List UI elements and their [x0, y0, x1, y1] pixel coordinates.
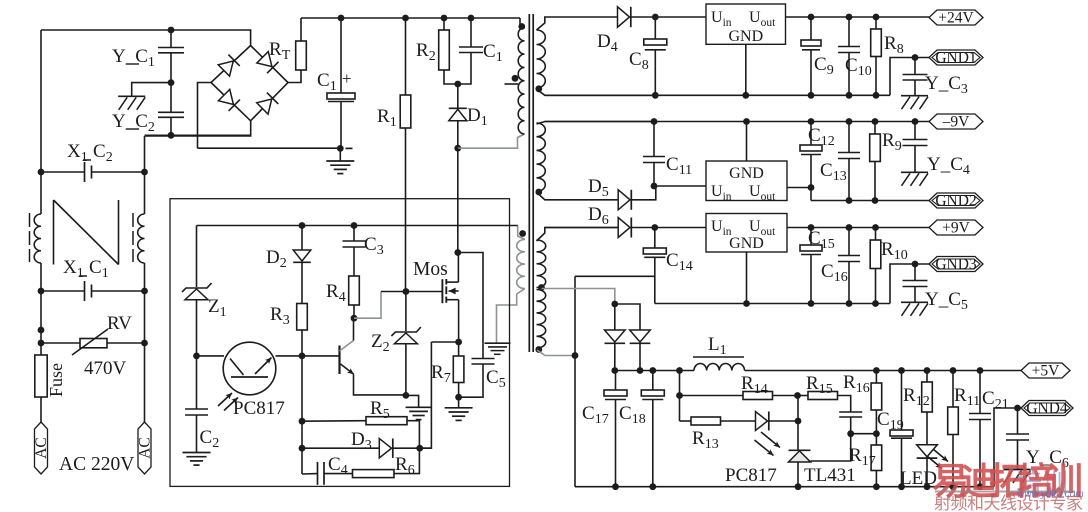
wire source to feedback	[420, 342, 432, 448]
svg-text:GND4: GND4	[1026, 400, 1068, 417]
common-mode choke right winding	[138, 214, 145, 263]
node GND1-YC3	[912, 54, 919, 61]
node snubber-D1	[454, 81, 461, 88]
node drain	[454, 249, 461, 256]
wire primary ground rail y=148	[198, 147, 341, 149]
capacitor C18	[652, 371, 654, 391]
node source	[455, 339, 462, 346]
capacitor C2	[196, 356, 198, 409]
wire control supply rail y=225	[197, 225, 518, 227]
node D3-R5-R6	[416, 445, 423, 452]
capacitor C1 snubber	[468, 15, 475, 22]
chassis ground Y_C6	[1004, 469, 1031, 471]
zener Z2	[405, 292, 407, 332]
capacitor C1 bulk	[338, 15, 345, 22]
ground (primary)	[326, 160, 354, 162]
svg-text:TL431: TL431	[804, 465, 856, 486]
capacitor C10	[846, 14, 853, 21]
svg-text:AC 220V: AC 220V	[59, 454, 134, 475]
transistor Q1	[338, 346, 340, 375]
node D3 row left	[299, 445, 306, 452]
wire gate drive	[354, 292, 381, 319]
node center tap	[538, 284, 545, 291]
node emitter	[403, 392, 410, 399]
capacitor C9	[808, 14, 815, 21]
choke symbol N	[53, 200, 55, 265]
node diode pair top	[611, 301, 618, 308]
resistor R10	[872, 224, 879, 231]
ground C2	[183, 452, 211, 454]
wire top DC rail y=18	[301, 17, 520, 19]
chassis ground Y_C4	[901, 171, 928, 173]
wire +5V bottom rail	[575, 486, 994, 488]
svg-text:+9V: +9V	[942, 220, 970, 237]
earth bar C5	[485, 342, 511, 344]
resistor R16	[873, 367, 880, 374]
node Y-cap midpoint	[168, 79, 175, 86]
capacitor C20	[839, 411, 862, 413]
svg-text:GND3: GND3	[935, 256, 977, 273]
chassis ground Y_C5	[901, 301, 928, 303]
capacitor C19	[898, 367, 905, 374]
wire primary return y=148	[458, 134, 525, 148]
transformer core	[528, 14, 530, 352]
node feedback column	[676, 367, 683, 374]
node opto-TL431	[795, 418, 802, 425]
node gate	[403, 288, 410, 295]
capacitor Y_C4	[914, 122, 916, 140]
wire AC top rail y=30	[41, 30, 251, 46]
terminal GND2	[929, 193, 983, 208]
capacitor C3	[351, 222, 358, 229]
resistor R3	[297, 304, 308, 331]
capacitor Y_C6	[1017, 408, 1019, 434]
bridge diode bottom-left	[218, 89, 240, 111]
diode D4	[618, 7, 630, 27]
terminal GND3	[929, 257, 983, 272]
wire shield to earth	[497, 289, 525, 343]
svg-text:470V: 470V	[84, 358, 127, 379]
capacitor C16	[846, 224, 853, 231]
opto PC817 input circle	[223, 342, 276, 395]
capacitor C14	[651, 224, 658, 231]
watermark	[932, 461, 1084, 512]
TL431 U4	[789, 451, 811, 462]
wire source left	[431, 341, 458, 343]
wire U2 output	[787, 187, 811, 189]
terminal GND1	[929, 50, 983, 65]
node R5 left	[299, 418, 306, 425]
node GND4-YC6	[1014, 405, 1021, 412]
wire bridge minus to ground rail	[198, 83, 212, 149]
wire C14 to common	[575, 275, 655, 277]
resistor R17	[875, 434, 877, 445]
transformer primary winding	[520, 18, 525, 28]
node R7-C5	[455, 394, 462, 401]
transformer secondary winding D (+5V)	[537, 290, 546, 349]
wire +5V raw rail	[615, 370, 694, 372]
resistor R4	[349, 276, 360, 305]
node R14-R15	[794, 392, 801, 399]
svg-text:PC817: PC817	[233, 398, 285, 419]
node C11-Uin	[651, 183, 658, 190]
wire left AC rail	[40, 30, 42, 214]
capacitor C17	[615, 371, 617, 391]
wire y=136 from right rail to bridge	[145, 134, 251, 136]
common-mode choke left winding	[34, 214, 41, 263]
capacitor Y_C1	[168, 27, 175, 34]
bridge diode top-left	[218, 55, 240, 77]
zener Z1	[196, 226, 198, 288]
svg-text:GND: GND	[729, 165, 764, 182]
svg-text:GND1: GND1	[935, 50, 976, 67]
wire GND3 link	[890, 264, 929, 304]
diode D7	[614, 304, 616, 330]
resistor R8	[873, 14, 880, 21]
terminal +9V	[929, 220, 983, 235]
resistor R2	[441, 15, 448, 22]
ground Z2	[406, 406, 432, 408]
wire to R16/R17 node	[851, 433, 877, 435]
diode D1	[457, 84, 459, 108]
resistor R12	[924, 367, 931, 374]
diode D8	[615, 304, 640, 330]
resistor R15	[798, 395, 809, 397]
resistor R13	[691, 417, 721, 425]
regulator U3 box	[706, 214, 787, 253]
terminal +5V	[1021, 363, 1070, 378]
inductor L1	[694, 364, 745, 371]
node drain-primary	[454, 145, 461, 152]
resistor R11	[950, 367, 957, 374]
wire center tap to diode pair	[542, 289, 615, 305]
svg-text:+24V: +24V	[938, 10, 974, 27]
regulator U2 box	[706, 161, 787, 201]
wire secondary A return y=95	[545, 94, 890, 96]
capacitor C4	[302, 473, 318, 475]
resistor R5	[302, 420, 366, 423]
svg-text:PC817: PC817	[725, 465, 777, 486]
capacitor Y_C5	[914, 264, 916, 280]
svg-text:射频和天线设计专家: 射频和天线设计专家	[934, 494, 1083, 512]
capacitor C13	[846, 118, 853, 125]
wire drain to C5	[458, 253, 483, 344]
capacitor X1_C1	[38, 288, 45, 295]
svg-text:RV: RV	[107, 313, 132, 334]
node R4-collector	[351, 315, 358, 322]
svg-text:AC: AC	[137, 437, 154, 459]
chassis ground Y_C3	[901, 95, 928, 97]
regulator U1 box	[706, 4, 786, 44]
capacitor C15	[808, 224, 815, 231]
regulator U2 GND pin	[746, 122, 748, 162]
svg-text:+5V: +5V	[1032, 363, 1060, 380]
diode D2	[299, 222, 306, 229]
wire +9V output	[787, 227, 929, 229]
svg-text:GND2: GND2	[935, 193, 976, 210]
wire GND2 rail y=200	[811, 200, 929, 202]
resistor R6	[353, 470, 395, 478]
resistor RT	[296, 41, 307, 70]
wire common drop x=575	[574, 276, 576, 486]
resistor R14	[680, 395, 744, 397]
capacitor C5	[459, 365, 483, 398]
node -9V YC4	[912, 118, 919, 125]
diode D3	[302, 447, 379, 449]
varistor RV 470V	[38, 327, 45, 334]
node TL431 anode	[795, 483, 802, 490]
opto light arrows	[218, 393, 232, 406]
wire +24V output	[786, 16, 930, 18]
bridge diode bottom-right	[257, 93, 279, 115]
transformer secondary winding B (-9V)	[537, 123, 546, 192]
node Y_C2 bottom	[168, 132, 175, 139]
svg-text:+: +	[342, 69, 352, 88]
wire GND4 link	[994, 408, 1021, 487]
wire bridge plus to RT	[288, 70, 301, 83]
wire +9V section return y=303	[655, 303, 890, 305]
wire right AC rail	[144, 136, 146, 214]
capacitor C21	[977, 367, 984, 374]
wire emitter to ground	[406, 395, 419, 406]
resistor R1	[402, 15, 409, 22]
wire base column down	[301, 356, 303, 421]
opto LED PC817 input	[756, 412, 768, 431]
terminal +24V	[929, 10, 983, 25]
node C1 ground	[337, 145, 344, 152]
diode D6	[545, 227, 618, 229]
capacitor C12	[808, 118, 815, 125]
control section box	[170, 199, 510, 487]
node D4-C8	[652, 14, 659, 21]
bridge rectifier diamond	[211, 46, 288, 121]
terminal AC right	[138, 422, 151, 474]
opto phototransistor	[230, 359, 244, 376]
wire -9V rail y=121	[545, 121, 929, 123]
svg-text:Mos: Mos	[413, 259, 448, 280]
capacitor X1_C2	[38, 169, 45, 176]
wire GND1 link	[890, 58, 929, 96]
node base	[299, 353, 306, 360]
terminal GND4	[1021, 401, 1073, 416]
diode D5	[618, 190, 630, 210]
fuse Fuse	[35, 355, 47, 397]
transformer shield winding	[518, 226, 525, 240]
wire TL431 ref	[811, 434, 851, 461]
node GND3-YC5	[912, 261, 919, 268]
transformer secondary winding C (+9V)	[537, 240, 546, 288]
regulator U1 GND pin	[745, 44, 747, 95]
resistor R9	[872, 118, 879, 125]
svg-text:GND: GND	[728, 28, 763, 45]
wire AC line y=136	[145, 121, 251, 136]
bridge diode top-right	[257, 52, 279, 74]
capacitor C11	[651, 118, 658, 125]
regulator U3 GND pin	[746, 252, 748, 304]
svg-text:AC: AC	[33, 437, 50, 459]
terminal AC left	[35, 422, 48, 474]
svg-text:Fuse: Fuse	[46, 363, 66, 397]
LED indicator	[917, 445, 938, 457]
opto coupling arrows	[761, 432, 780, 448]
svg-text:–9V: –9V	[942, 114, 971, 131]
chassis ground (input)	[118, 95, 145, 97]
wire winding D return	[537, 350, 575, 356]
capacitor Y_C2	[170, 83, 172, 112]
node opto input	[193, 353, 200, 360]
node C20 bottom	[847, 430, 854, 437]
wire +5V rail	[745, 370, 1022, 372]
capacitor C8	[654, 17, 656, 39]
svg-text:GND: GND	[729, 235, 764, 252]
transformer secondary winding A (+24V)	[537, 30, 546, 88]
ground R7	[458, 397, 460, 407]
wire to chassis ground	[132, 83, 171, 96]
resistor R7	[458, 342, 460, 356]
capacitor Y_C3	[914, 58, 916, 75]
terminal -9V	[929, 114, 983, 129]
primary tap stub	[505, 83, 519, 85]
node winding D join	[572, 352, 579, 359]
